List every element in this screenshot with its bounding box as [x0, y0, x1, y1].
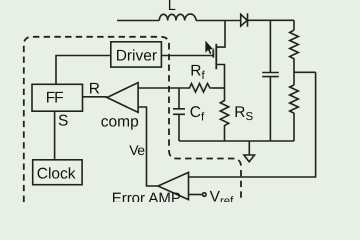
svg-text:comp: comp: [101, 113, 139, 130]
FF box: [32, 84, 83, 111]
wire: FF to Driver: [56, 56, 111, 85]
capacitor Cf top lead: [178, 88, 180, 108]
comparator U1 triangle: [107, 83, 138, 113]
resistor Rs: [220, 88, 228, 141]
output capacitor C1 plates: [262, 73, 279, 77]
svg-text:Driver: Driver: [116, 47, 157, 64]
transistor Q1 source wire: [217, 65, 225, 89]
svg-text:Clock: Clock: [37, 165, 76, 182]
Clock box: [33, 160, 82, 185]
wire: Rf to source node: [212, 87, 225, 89]
wire: driver output to gate: [161, 55, 213, 57]
inductor L: [159, 14, 196, 20]
svg-text:S: S: [58, 113, 68, 130]
svg-text:FF: FF: [46, 89, 63, 106]
resistor Rf: [188, 84, 212, 93]
output capacitor C1 bottom lead: [269, 77, 271, 141]
Driver box: [111, 42, 162, 67]
wire: R1 to R2 with tap: [293, 60, 295, 85]
wire: input to inductor: [117, 20, 159, 22]
diode D1: [241, 13, 248, 27]
bottom rail: [179, 140, 294, 142]
svg-text:Error AMP: Error AMP: [112, 190, 181, 202]
wire: comp+ input to Rf: [138, 87, 187, 89]
capacitor Cf plates: [173, 109, 185, 115]
wire: output corner down to R1: [293, 20, 295, 30]
svg-text:L: L: [168, 0, 176, 14]
svg-text:Ve: Ve: [129, 142, 145, 158]
transistor Q1 drain wire: [217, 20, 225, 47]
wire: divider tap to right: [294, 71, 316, 73]
transistor Q1 gate bar: [212, 49, 214, 58]
mouse cursor: [205, 40, 213, 54]
Vref terminal circle: [203, 193, 207, 197]
wire: diode cathode to output corner: [248, 19, 295, 21]
resistor R1 (upper divider): [290, 30, 299, 60]
resistor R2 (lower divider): [290, 85, 299, 141]
ground symbol: [244, 155, 255, 162]
wire: comp output to FF R input: [83, 96, 108, 98]
capacitor Cf bottom lead: [178, 114, 180, 141]
dashed control-IC boundary: [24, 37, 241, 202]
wire: inductor to diode anode: [196, 20, 241, 22]
feedback wire: tap down and left to error amp: [189, 72, 316, 177]
error amp U2 triangle: [158, 172, 189, 199]
error amp output wire Ve: [138, 107, 158, 186]
wire: FF S input to Clock: [54, 111, 56, 160]
svg-text:R: R: [89, 80, 100, 97]
output capacitor C1 top lead: [269, 20, 271, 72]
transistor Q1 channel bar: [215, 44, 217, 69]
error amp Vref stub: [189, 194, 203, 196]
ground stub: [248, 141, 250, 155]
